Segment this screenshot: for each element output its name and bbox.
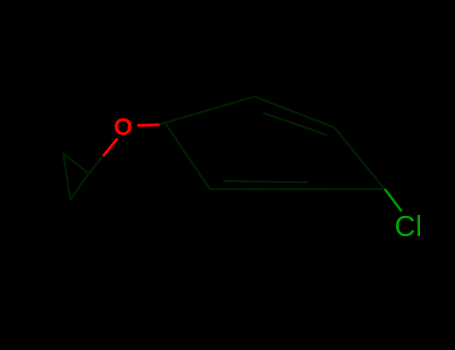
svg-text:O: O xyxy=(114,114,133,141)
svg-text:Cl: Cl xyxy=(395,211,422,243)
